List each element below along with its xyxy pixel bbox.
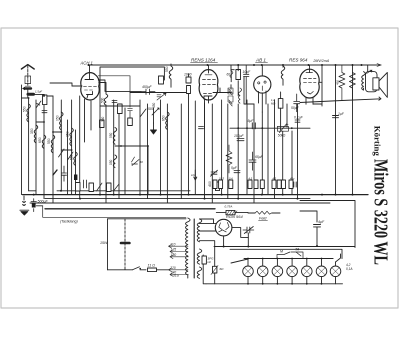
- capacitor C13 01uF: [295, 120, 300, 122]
- capacitor C23: [294, 182, 296, 187]
- junction dots det: [237, 127, 292, 129]
- coil L15: [113, 155, 116, 168]
- wire det verticals d7: [282, 131, 284, 194]
- wire det verticals d9: [291, 131, 293, 195]
- resistor R1 box: [43, 95, 47, 105]
- resistor R7 box: [278, 99, 283, 109]
- wire bus B1: [23, 194, 369, 196]
- coil L13 IF2: [238, 88, 241, 103]
- resistor row boxI: [282, 180, 286, 189]
- junction dots left: [28, 95, 73, 151]
- wire mid verticals m3: [113, 100, 115, 195]
- wire vertical left v3: [35, 100, 37, 195]
- svg-text:650: 650: [161, 115, 165, 121]
- potentiometer P2: [277, 124, 288, 133]
- wire bus B4: [57, 190, 190, 192]
- speaker LS transformer: [373, 78, 379, 90]
- wire U4 pins: [306, 98, 322, 104]
- resistor R8 zigzag: [339, 65, 345, 100]
- capacitor C7: [244, 65, 249, 104]
- transformer TR primary winding: [186, 218, 191, 278]
- tube U1 cathode: [87, 92, 93, 99]
- svg-text:150: 150: [171, 253, 177, 257]
- svg-text:050: 050: [109, 159, 113, 165]
- wire mid verticals m8: [153, 108, 155, 123]
- wire vertical left v8: [71, 100, 73, 195]
- capacitor C1: [42, 111, 47, 113]
- resistor row box3: [107, 183, 112, 192]
- speaker LS arrow: [367, 70, 372, 73]
- wire det line y130: [230, 127, 310, 129]
- wire mid verticals m10b: [180, 104, 182, 199]
- potentiometer P2 arrow: [286, 124, 288, 126]
- switch S8: [114, 184, 120, 191]
- capacitor C15 500uF: [31, 199, 36, 212]
- capacitor C12 50uF: [294, 94, 300, 112]
- wire mid verticals m10: [166, 104, 168, 203]
- svg-text:110: 110: [170, 242, 175, 246]
- svg-text:4,5: 4,5: [273, 176, 277, 180]
- lamp LP7: [330, 262, 341, 284]
- wire right low box top: [300, 201, 355, 248]
- svg-text:RGN 564: RGN 564: [226, 214, 243, 219]
- speaker LS cone: [379, 73, 387, 98]
- capacitor C16 mains: [121, 242, 129, 245]
- tube U1 anode: [85, 65, 94, 80]
- tube U2 RENS1264 envelope: [199, 70, 218, 100]
- junction dots bus: [33, 190, 354, 200]
- svg-text:65μF: 65μF: [255, 155, 264, 159]
- wire C17 down: [247, 233, 249, 247]
- resistor row boxC: [229, 180, 233, 189]
- mains bottom wire: [108, 269, 147, 271]
- wire mid verticals m4: [118, 104, 120, 199]
- coil L7: [74, 152, 78, 166]
- wire right low y249: [230, 249, 342, 258]
- wire bus B3: [45, 198, 310, 200]
- tube U4 anode: [309, 65, 311, 73]
- svg-text:4μF: 4μF: [318, 220, 325, 224]
- svg-text:350: 350: [66, 131, 70, 137]
- wire right verticals r1: [321, 65, 323, 106]
- junction y146: [120, 145, 149, 147]
- capacitor C5: [199, 127, 204, 129]
- lamp LP3: [272, 259, 283, 284]
- capacitor C21: [157, 95, 161, 97]
- wire vertical left v5: [52, 96, 54, 203]
- resistor R11 label underline: [259, 220, 268, 222]
- wire det verticals d4: [267, 104, 269, 195]
- wire rung b: [36, 121, 44, 123]
- wire vertical left v10: [79, 96, 81, 199]
- speaker LS loop: [366, 72, 378, 92]
- wire det verticals d6: [286, 104, 288, 127]
- wire y106 link: [100, 105, 140, 107]
- transformer TR sec winding 2: [197, 249, 202, 264]
- rectifier U5 RGN564 envelope: [215, 219, 232, 236]
- capacitor ant blob1 arrow: [22, 87, 25, 91]
- svg-text:450: 450: [336, 80, 340, 85]
- wire bus B2: [30, 202, 330, 204]
- svg-text:0,1A: 0,1A: [346, 267, 353, 271]
- antenna: [21, 65, 34, 69]
- resistor R7 wire: [280, 92, 282, 130]
- tube U1 ACH1 envelope: [81, 73, 99, 100]
- capacitor C6 trimmer: [211, 170, 218, 176]
- junction dots top: [88, 64, 363, 66]
- coil L11 osc: [99, 83, 108, 106]
- resistor R2 box: [118, 104, 123, 114]
- svg-text:2MV/2mA: 2MV/2mA: [312, 59, 329, 63]
- wire vertical left v6: [60, 100, 62, 191]
- regulator SPG box: [213, 266, 217, 273]
- potentiometer P1: [152, 108, 159, 115]
- resistor R11 Feld: [255, 211, 274, 214]
- lamps bottom bus: [206, 283, 343, 285]
- svg-text:45μ: 45μ: [290, 176, 295, 180]
- svg-text:RES 964: RES 964: [289, 58, 308, 63]
- svg-text:15W: 15W: [100, 241, 108, 245]
- svg-text:0,4: 0,4: [229, 176, 233, 180]
- svg-text:10μF: 10μF: [243, 70, 252, 74]
- lamp LP2: [257, 259, 268, 284]
- wire lamp last top: [333, 254, 341, 262]
- svg-text:350: 350: [30, 128, 34, 134]
- wire link y146: [115, 146, 148, 195]
- wire upper-mid link1: [220, 88, 231, 93]
- resistor R6 zigzag: [226, 145, 232, 173]
- svg-text:Miros S 3220 WL: Miros S 3220 WL: [370, 159, 392, 265]
- svg-text:1μF: 1μF: [338, 112, 345, 116]
- svg-text:TA: TA: [295, 248, 300, 252]
- tube U4 RES964 envelope: [300, 69, 319, 98]
- capacitor C25: [84, 180, 87, 188]
- svg-text:050: 050: [55, 115, 59, 121]
- svg-text:(Tastklang): (Tastklang): [60, 219, 78, 223]
- wire lower link2: [43, 206, 186, 218]
- resistor row boxA: [213, 180, 217, 189]
- wire R5: [231, 65, 238, 96]
- resistor row box1: [76, 183, 81, 192]
- arrow 1A down: [194, 170, 197, 180]
- choke CH hatch: [227, 211, 237, 215]
- wire vertical left v4: [43, 96, 45, 199]
- tube U4 grids: [304, 73, 317, 95]
- svg-text:Feld: Feld: [259, 217, 267, 221]
- rectifier U5 electrodes: [219, 222, 229, 232]
- capacitor ant blob1: [25, 87, 32, 89]
- ground G1: [151, 123, 157, 134]
- junction dots lamps: [223, 245, 323, 285]
- svg-text:450μF: 450μF: [142, 85, 153, 89]
- wire det verticals d8: [297, 104, 299, 199]
- svg-text:500: 500: [148, 107, 154, 111]
- svg-text:Körting: Körting: [373, 126, 383, 157]
- mains box left vert: [107, 219, 109, 270]
- tube U4 cathode: [319, 81, 322, 83]
- wire U1 left coupling: [50, 83, 72, 86]
- wire rect bottom: [214, 236, 355, 247]
- wire mid verticals m6: [139, 100, 141, 195]
- resistor row boxF: [260, 180, 264, 189]
- svg-text:RENS 1264: RENS 1264: [191, 58, 216, 63]
- resistor R3 box: [187, 86, 191, 94]
- svg-text:220: 220: [169, 266, 176, 270]
- switch S9: [68, 152, 74, 160]
- wire right verticals r2: [335, 65, 337, 195]
- svg-text:5μF: 5μF: [231, 166, 238, 170]
- svg-text:AB 1: AB 1: [255, 58, 266, 63]
- coil L10: [281, 65, 285, 85]
- speaker LS field coil: [362, 72, 366, 91]
- wire trafo to lamp bus: [203, 255, 206, 284]
- wire mid verticals m11: [194, 101, 196, 195]
- wire vertical left v2: [28, 98, 30, 191]
- wire mid verticals m15: [227, 104, 229, 199]
- wire det verticals d1: [237, 104, 239, 199]
- switch S1: [36, 101, 41, 108]
- wire U3 top: [261, 65, 263, 76]
- mains box top wire: [108, 218, 187, 220]
- resistor row boxD: [248, 180, 252, 189]
- transformer TR tap arrows: [169, 244, 189, 276]
- wire vertical left v7: [67, 120, 69, 195]
- mains dashed line: [124, 219, 126, 270]
- switch S5 M: [277, 252, 290, 259]
- lamp LP5: [302, 259, 313, 284]
- svg-text:500: 500: [101, 97, 105, 103]
- capacitor ant blob2: [28, 93, 34, 96]
- svg-text:60: 60: [227, 73, 231, 77]
- wire mid verticals m14: [221, 100, 223, 195]
- wire rung e: [44, 95, 53, 97]
- wire R10 to taps: [157, 269, 169, 271]
- wire antenna lead: [27, 66, 29, 86]
- choke CH hatched: [226, 210, 235, 214]
- capacitor C19: [62, 166, 67, 181]
- regulator SPG arrow: [211, 266, 218, 275]
- wire R3 down: [188, 74, 190, 195]
- coil L14: [113, 128, 116, 145]
- wire speaker feed: [367, 65, 369, 72]
- IF transformer T1 boxes: [228, 88, 233, 106]
- wire heavy bus B5: [45, 208, 215, 210]
- svg-text:~ 31a: ~ 31a: [170, 274, 179, 278]
- coil L8 IF primary: [169, 64, 173, 87]
- svg-text:550: 550: [109, 132, 113, 138]
- svg-text:1,5μF: 1,5μF: [35, 89, 42, 93]
- capacitor C4 1000: [186, 77, 191, 83]
- wire U3 net down: [261, 112, 263, 195]
- capacitor C8 5uF: [252, 123, 255, 129]
- resistor R12 box: [128, 118, 133, 126]
- switch S4 mains: [133, 267, 140, 270]
- wire SPG down: [214, 247, 216, 284]
- tube U2 label underline: [191, 62, 218, 64]
- resistor R9 zigzag: [349, 73, 355, 101]
- svg-text:550: 550: [70, 154, 74, 160]
- wire AB1 region top links: [230, 65, 232, 89]
- tube U3 AB1 envelope: [254, 76, 271, 93]
- resistor row boxE: [254, 180, 258, 189]
- svg-text:M: M: [280, 250, 283, 254]
- svg-text:350: 350: [101, 116, 105, 122]
- transformer TR core: [193, 219, 195, 278]
- wire rect to sec: [200, 219, 217, 231]
- resistor R5 box: [236, 70, 241, 80]
- svg-text:Hz: Hz: [208, 260, 212, 264]
- tube U2 cathode: [204, 96, 212, 103]
- svg-text:550: 550: [22, 106, 26, 112]
- wire choke leads: [216, 211, 248, 213]
- wire top bus: [88, 64, 381, 66]
- wire U2 pins: [205, 93, 221, 130]
- lamp LP4: [287, 259, 298, 284]
- regulator upper box: [202, 256, 206, 264]
- wire top bus arrow end: [377, 64, 381, 67]
- svg-text:0,1μF: 0,1μF: [294, 116, 304, 120]
- wire U1 pins down: [72, 86, 91, 142]
- tube U3 electrodes: [258, 81, 267, 91]
- capacitor antenna trimmer: [25, 76, 31, 88]
- svg-text:50μF: 50μF: [291, 106, 300, 110]
- lamp LP6: [316, 259, 327, 284]
- resistor row boxJ: [289, 180, 293, 189]
- wire y88 link: [98, 80, 141, 91]
- tube U1 label underline: [98, 76, 132, 118]
- switch S3: [140, 109, 146, 117]
- wire mid verticals m9: [160, 100, 162, 195]
- svg-text:1A: 1A: [191, 173, 195, 177]
- wire rung a: [22, 97, 29, 99]
- wire C18 down: [316, 227, 318, 247]
- wire right verticals r3: [352, 65, 354, 195]
- capacitor C2: [112, 101, 117, 103]
- capacitor C18 4uF: [314, 225, 321, 227]
- coil L2: [34, 125, 38, 143]
- pot arrow P3: [157, 93, 166, 100]
- switch S6 TA: [291, 252, 303, 259]
- transformer TR sec winding 3: [197, 267, 202, 278]
- resistor R10 11ohm: [148, 268, 157, 272]
- coil L1: [27, 104, 30, 122]
- coil L5: [42, 135, 46, 149]
- svg-text:0,15: 0,15: [219, 176, 225, 180]
- svg-text:1000: 1000: [184, 73, 192, 77]
- ground G2: [20, 196, 29, 215]
- lamp LP1: [243, 259, 254, 284]
- switch S7: [97, 183, 103, 191]
- wire mid verticals m2: [105, 105, 107, 203]
- svg-text:4,5: 4,5: [249, 176, 253, 180]
- capacitor C3 450: [141, 89, 155, 95]
- capacitor C15 body: [32, 203, 36, 208]
- resistor row boxB: [219, 180, 223, 189]
- svg-text:400: 400: [208, 181, 212, 187]
- wire U3 bottom pins: [259, 91, 267, 112]
- resistor R13 box: [100, 120, 105, 128]
- switch S4 dot: [139, 268, 141, 270]
- wire blob2 right: [34, 94, 45, 96]
- lamps top bus: [244, 258, 333, 260]
- wire mid verticals m1: [99, 90, 101, 195]
- wire rung f: [29, 190, 36, 192]
- coil L9 IF secondary: [166, 112, 170, 130]
- wire heater stub: [200, 241, 215, 247]
- svg-text:50kΩ: 50kΩ: [278, 134, 286, 138]
- wire right low y211: [300, 211, 317, 222]
- resistor R4 box: [216, 182, 220, 191]
- wire mid verticals m5: [124, 108, 126, 195]
- svg-text:ACH 1: ACH 1: [80, 60, 93, 65]
- capacitor C14 1uF: [333, 116, 339, 118]
- svg-text:11 Ω: 11 Ω: [148, 263, 156, 267]
- resistor row boxH: [277, 180, 281, 189]
- svg-text:650: 650: [38, 137, 42, 143]
- coil L6: [70, 128, 74, 146]
- wire lower link1: [36, 205, 42, 207]
- tube U2 anode: [208, 65, 210, 73]
- wire vertical left v1: [21, 85, 23, 195]
- coil L4: [60, 112, 64, 130]
- tube U2 grids: [203, 75, 216, 94]
- svg-text:100μF: 100μF: [234, 134, 245, 138]
- wire speaker bottom: [300, 97, 381, 103]
- capacitor C10 65uF: [249, 152, 256, 170]
- tube U3 label underline: [256, 62, 268, 64]
- wire rect right: [232, 228, 248, 238]
- svg-text:1,2: 1,2: [271, 98, 275, 102]
- switch S2: [59, 149, 65, 157]
- svg-text:5μF: 5μF: [248, 119, 255, 123]
- capacitor C17: [243, 227, 254, 234]
- resistor R11 leads: [248, 212, 280, 214]
- trimmer C26: [132, 157, 140, 166]
- wire det verticals d2: [246, 100, 248, 195]
- svg-text:0,75A: 0,75A: [225, 205, 233, 209]
- wire mid verticals m13: [211, 104, 213, 203]
- capacitor C22 box: [159, 76, 164, 84]
- wire rung d: [61, 149, 71, 151]
- svg-text:550: 550: [47, 138, 51, 144]
- wire det verticals d5: [274, 100, 276, 199]
- wire det verticals d3: [253, 104, 255, 203]
- tube U1 grid dashes: [84, 86, 97, 90]
- capacitor C24 blob: [74, 175, 77, 181]
- wire grid line RENS: [130, 92, 186, 94]
- wire U1 top link: [100, 67, 164, 90]
- svg-text:MΩ: MΩ: [271, 101, 275, 105]
- wire antenna to coil: [27, 89, 29, 98]
- wire mid verticals m12: [204, 103, 206, 199]
- wire rung c: [53, 131, 61, 133]
- wire diag to lamps: [231, 259, 248, 263]
- resistor row boxG: [272, 180, 276, 189]
- coil L3: [51, 135, 55, 153]
- wire vertical left v9: [75, 130, 77, 195]
- transformer TR sec winding 1: [197, 219, 202, 242]
- wire AB1 net: [244, 77, 254, 105]
- capacitor C9 100uF: [237, 139, 244, 141]
- wire mid verticals m7: [147, 104, 149, 199]
- capacitor C20: [53, 170, 57, 175]
- resistor row box2: [89, 183, 94, 192]
- svg-text:125: 125: [171, 248, 177, 252]
- coil L12 60: [230, 71, 233, 78]
- svg-text:500μF: 500μF: [38, 200, 49, 204]
- capacitor C11 5uF: [234, 171, 240, 173]
- svg-text:550: 550: [165, 66, 169, 72]
